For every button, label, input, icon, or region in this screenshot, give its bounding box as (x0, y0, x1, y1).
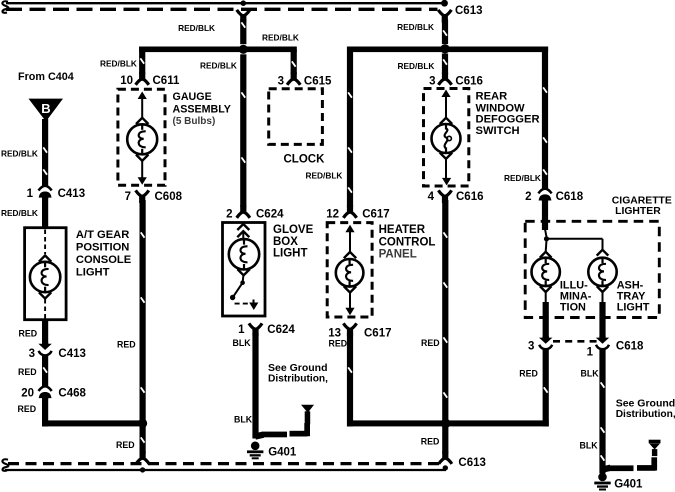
svg-text:From C404: From C404 (18, 71, 74, 83)
wire BLK: ashtray to ground (599, 348, 605, 473)
svg-text:LIGHT: LIGHT (617, 302, 650, 314)
feed triangle B from C404 (29, 99, 64, 122)
wire RED/BLK: junction down to glove box (240, 54, 246, 207)
svg-text:HEATER: HEATER (379, 224, 426, 236)
svg-text:RED/BLK: RED/BLK (178, 23, 215, 33)
svg-text:Distribution,: Distribution, (268, 374, 328, 385)
wire RED: A/T light to C413 (42, 320, 48, 346)
wire RED: bottom run heater-junction-cigarette (347, 420, 549, 426)
svg-text:RED/BLK: RED/BLK (1, 208, 38, 218)
clock box (269, 89, 323, 145)
junction dot on thin bus at C613 drop (441, 0, 448, 7)
wire RED/BLK: triangle B to C413 (42, 119, 48, 187)
svg-text:3: 3 (528, 340, 534, 352)
svg-text:RED: RED (421, 338, 440, 348)
junction dot: center distribution node (239, 45, 248, 54)
svg-text:PANEL: PANEL (379, 248, 417, 260)
defogger internal chevron (440, 118, 452, 124)
connector C617 pin 12 (fork) (343, 205, 356, 218)
svg-text:DEFOGGER: DEFOGGER (476, 114, 540, 126)
glove door switch blade (233, 283, 243, 298)
gauge internal arrow up (138, 92, 147, 100)
glove box light box (223, 223, 266, 317)
A/T internal dashed lead lower (44, 299, 46, 319)
heater internal chevron (344, 252, 356, 258)
wire RED/BLK: drop to heater control panel (347, 47, 353, 208)
svg-text:ASSEMBLY: ASSEMBLY (173, 103, 231, 115)
cigarette lighter box (525, 221, 659, 317)
bulb: gauge assembly illumination (127, 124, 157, 154)
wire RED/BLK: drop to clock (291, 49, 297, 74)
connector C618 pin 3 (in-line) (539, 336, 552, 349)
junction dot: defogger/heater/cigarette node (441, 419, 451, 429)
connector C618 pin 2 (in-line) (538, 189, 551, 202)
svg-text:RED: RED (329, 338, 348, 348)
glove switch pivot (242, 275, 245, 282)
heater internal arrow down (349, 293, 351, 310)
svg-text:C617: C617 (364, 327, 392, 339)
svg-text:C618: C618 (556, 191, 584, 203)
connector C613 tap (bottom) (439, 451, 452, 464)
wire: ashtray ground elbow (603, 468, 611, 470)
connector link dashes C618 (553, 340, 597, 343)
bulb: glove box light (229, 239, 259, 269)
svg-text:3: 3 (429, 76, 435, 88)
wire RED: heater to bottom junction (347, 333, 353, 427)
heater control panel box (327, 223, 372, 317)
wire RED: A/T horizontal run to gauge wire (42, 420, 143, 426)
wire RED/BLK: bus tap down to distribution junction (240, 20, 246, 45)
svg-text:C624: C624 (267, 324, 295, 336)
heater internal chevron lower (344, 286, 356, 292)
svg-text:(5 Bulbs): (5 Bulbs) (173, 116, 216, 127)
svg-text:C618: C618 (616, 340, 644, 352)
cig internal chevron below illumination (540, 286, 552, 292)
wire: illumination bulb to C618 pin 3 (545, 292, 547, 303)
glove internal double chevron (237, 224, 249, 230)
svg-text:RED/BLK: RED/BLK (397, 22, 434, 32)
svg-text:LIGHT: LIGHT (76, 267, 110, 279)
connector tap on dashed bus (node A) (237, 10, 250, 23)
wire break squiggle bottom-left (2, 459, 8, 470)
svg-text:1: 1 (238, 324, 245, 336)
gauge internal chevron lower (136, 155, 148, 161)
wire RED: C413 to C468 (42, 355, 48, 387)
svg-text:CONSOLE: CONSOLE (76, 254, 132, 266)
svg-text:LIGHTER: LIGHTER (615, 206, 661, 217)
svg-text:GLOVE: GLOVE (273, 224, 314, 236)
A/T internal dashed lead upper (44, 230, 46, 255)
svg-text:2: 2 (525, 191, 531, 203)
gauge assembly box (118, 89, 165, 185)
svg-text:A/T GEAR: A/T GEAR (76, 229, 129, 241)
svg-text:C608: C608 (155, 191, 183, 203)
connector C617 pin 13 (fork) (343, 323, 356, 336)
bulb: rear defogger switch illumination (432, 124, 461, 153)
svg-text:RED: RED (116, 440, 135, 450)
svg-text:C615: C615 (304, 76, 332, 88)
connector C611 pin 10 (fork) (136, 72, 149, 85)
svg-text:RED: RED (421, 436, 440, 446)
defogger internal chevron lower (440, 153, 452, 159)
connector C616 pin 4 (fork) (438, 190, 451, 203)
wire: top bus thin line (continuation) (6, 2, 444, 4)
junction dot on bottom thin line (gauge) (140, 467, 145, 472)
svg-text:RED/BLK: RED/BLK (200, 60, 237, 70)
svg-text:RED: RED (18, 404, 37, 414)
svg-text:RED/BLK: RED/BLK (504, 173, 541, 183)
wire RED/BLK: C613 to junction (442, 20, 448, 45)
svg-text:RED: RED (519, 368, 538, 378)
svg-text:CIGARETTE: CIGARETTE (612, 195, 672, 206)
wire RED/BLK: junction to defogger switch (442, 54, 448, 75)
cig internal chevron below ashtray (597, 286, 609, 292)
bulb: illumination (532, 258, 560, 286)
svg-text:RED/BLK: RED/BLK (262, 32, 299, 42)
connector C624 pin 1 (fork) (249, 323, 262, 336)
svg-text:TION: TION (560, 302, 586, 314)
svg-text:G401: G401 (268, 446, 297, 458)
heater internal arrow up (345, 225, 354, 233)
gauge internal arrow down (141, 161, 143, 178)
ground G401 (right) (594, 473, 610, 491)
ground G401 (left) (247, 442, 263, 460)
connector C615 pin 3 (fork) (287, 72, 300, 85)
defogger internal arrow down (445, 159, 447, 179)
wire RED/BLK: C413 to A/T console light (42, 196, 48, 229)
svg-text:C624: C624 (256, 209, 284, 221)
svg-text:REAR: REAR (476, 91, 508, 103)
connector C413 pin 3 (in-line) (38, 342, 51, 355)
wire RED: gauge assembly to bottom bus (140, 200, 146, 454)
defogger internal arrow up (441, 90, 450, 98)
svg-text:RED: RED (18, 367, 37, 377)
svg-text:G401: G401 (614, 478, 643, 490)
rear window defogger switch box (424, 89, 469, 187)
svg-text:CLOCK: CLOCK (284, 153, 326, 165)
wire: bottom bus dashed RED feed (8, 462, 440, 465)
cig internal chevron (illumination) (540, 252, 552, 258)
connector C616 pin 3 (fork) (438, 72, 451, 85)
connector C624 pin 2 (fork) (237, 205, 250, 218)
svg-text:2: 2 (226, 209, 232, 221)
svg-text:3: 3 (29, 348, 35, 360)
cig internal chevron (ashtray) (597, 250, 609, 256)
svg-text:10: 10 (120, 75, 133, 87)
A/T internal chevron upper (39, 256, 51, 262)
wire: right distribution run (heater to cigarette lighter) (347, 47, 548, 53)
connector C613 tap (top) (438, 10, 451, 23)
svg-text:RED/BLK: RED/BLK (100, 59, 137, 69)
svg-text:See Ground: See Ground (268, 362, 328, 374)
glove switch dashed throw (235, 303, 252, 305)
svg-text:CONTROL: CONTROL (379, 236, 436, 248)
wire: left distribution run (gauge to clock) (139, 47, 297, 53)
svg-text:C613: C613 (455, 5, 483, 17)
junction dot on bottom thin line (C613) (443, 465, 448, 470)
glove internal chevron below bulb (237, 269, 249, 275)
svg-text:7: 7 (125, 191, 131, 203)
gauge internal chevron (136, 118, 148, 124)
wire BLK: glove box to ground (252, 333, 258, 439)
junction dot on thin bus at node A (241, 0, 247, 6)
svg-text:See Ground: See Ground (616, 398, 675, 410)
svg-text:C613: C613 (458, 457, 486, 469)
bulb: ash-tray light (588, 258, 616, 286)
bulb: heater control panel illumination (336, 259, 364, 287)
connector tap on bottom bus (gauge wire) (136, 451, 149, 464)
svg-text:BOX: BOX (273, 236, 298, 248)
svg-text:LIGHT: LIGHT (273, 247, 308, 259)
svg-text:C413: C413 (58, 348, 86, 360)
svg-text:C616: C616 (456, 191, 484, 203)
svg-text:RED/BLK: RED/BLK (306, 171, 343, 181)
glove switch arrow to terminal (253, 300, 255, 304)
connector C468 pin 20 (in-line) (39, 386, 52, 399)
connector C618 pin 1 (in-line) (596, 336, 609, 349)
svg-text:1: 1 (27, 188, 34, 200)
wire RED: defogger switch down to junction (442, 200, 448, 421)
wire RED/BLK: drop to gauge assembly (139, 47, 145, 75)
svg-text:3: 3 (278, 76, 284, 88)
svg-text:C617: C617 (362, 209, 390, 221)
svg-text:12: 12 (326, 209, 339, 221)
wire: glove ground elbow (255, 435, 263, 437)
svg-text:BLK: BLK (234, 414, 253, 424)
A/T gear position console light box (25, 228, 67, 320)
svg-text:C611: C611 (153, 75, 180, 87)
svg-text:BLK: BLK (233, 338, 252, 348)
wire RED: C468 down to corner (42, 397, 48, 427)
svg-text:BLK: BLK (581, 368, 600, 378)
wire: C618 into cigarette lighter box (542, 199, 548, 230)
ground distribution arrow (right) (649, 440, 661, 456)
bulb: A/T gear position console light (30, 262, 60, 292)
wire RED/BLK: distribution to cigarette lighter (542, 47, 548, 190)
svg-text:GAUGE: GAUGE (173, 91, 212, 103)
svg-text:C468: C468 (58, 387, 86, 399)
svg-text:BLK: BLK (580, 440, 599, 450)
svg-text:RED/BLK: RED/BLK (1, 149, 38, 159)
svg-text:SWITCH: SWITCH (476, 125, 520, 137)
junction dot: gauge wire / AT console feed (138, 419, 147, 428)
svg-text:B: B (41, 101, 50, 116)
ground distribution arrow (left) (301, 405, 314, 425)
wire: top bus dashed RED/BLK feed (6, 8, 438, 11)
connector C608 pin 7 (fork) (136, 190, 149, 203)
svg-text:20: 20 (21, 387, 34, 399)
svg-text:4: 4 (428, 191, 435, 203)
wire break squiggle top-left (2, 1, 8, 12)
cig internal splitter (545, 229, 547, 237)
wire texture nicks (241, 22, 246, 28)
svg-text:RED: RED (117, 340, 136, 350)
wire RED: junction to bottom bus tap (442, 426, 448, 453)
svg-text:1: 1 (587, 346, 594, 358)
A/T internal chevron lower (39, 292, 51, 298)
connector C413 pin 1 (in-line) (39, 186, 52, 199)
wire: ashtray bulb to C618 pin 1 (602, 292, 604, 303)
svg-text:C616: C616 (455, 76, 483, 88)
svg-text:C413: C413 (58, 188, 86, 200)
svg-text:POSITION: POSITION (76, 242, 129, 254)
svg-text:Distribution,: Distribution, (616, 409, 675, 420)
svg-text:RED/BLK: RED/BLK (398, 61, 435, 71)
junction dot on right run at defogger wire (440, 44, 449, 53)
wire RED: illumination to bottom junction (543, 348, 549, 426)
wire: bottom bus thin line (continuation) (5, 469, 446, 471)
svg-text:RED: RED (19, 328, 38, 338)
